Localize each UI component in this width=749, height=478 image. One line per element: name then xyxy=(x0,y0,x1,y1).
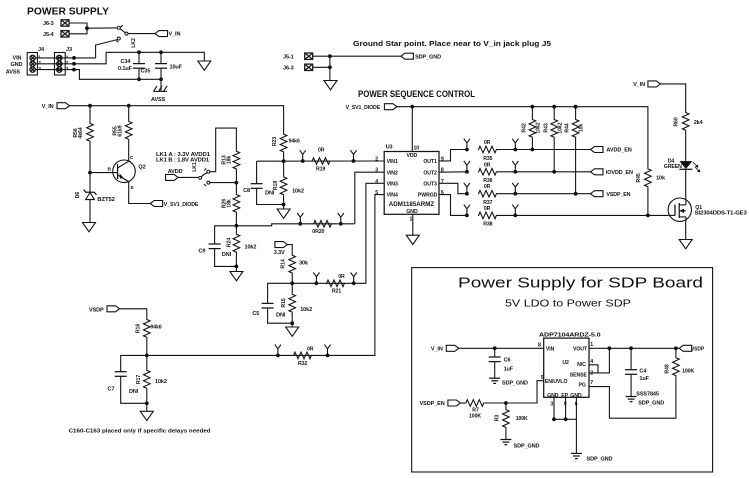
test point R38 right xyxy=(512,205,518,216)
junction col3 xyxy=(574,192,578,196)
wire to R7 xyxy=(460,402,465,404)
resistor R3 100K xyxy=(495,403,529,440)
junction VDD drop xyxy=(410,105,414,109)
wire Q1 source xyxy=(685,221,687,239)
svg-text:VIN3: VIN3 xyxy=(387,181,398,187)
svg-text:C7: C7 xyxy=(108,387,115,393)
wire PWRGD xyxy=(439,195,467,216)
svg-text:5V LDO to Power SDP: 5V LDO to Power SDP xyxy=(505,299,631,310)
ground xyxy=(140,403,153,420)
svg-text:SI2304DDS-T1-GE3: SI2304DDS-T1-GE3 xyxy=(695,211,747,217)
test point R21 left xyxy=(313,273,319,284)
junction VSDP divider xyxy=(145,354,149,358)
svg-text:VSDP_EN: VSDP_EN xyxy=(420,401,445,407)
svg-text:10k2: 10k2 xyxy=(557,122,563,133)
wire IOVDD_EN row xyxy=(497,171,591,173)
wire to AVSS ground xyxy=(160,79,162,91)
flag VSDP xyxy=(89,306,120,314)
junction R48 top xyxy=(674,346,678,350)
wire row3 AVSS xyxy=(35,70,138,80)
svg-text:IOVDD_EN: IOVDD_EN xyxy=(606,170,633,176)
svg-text:GREEN: GREEN xyxy=(664,164,682,170)
svg-text:VIN: VIN xyxy=(13,56,22,62)
test point R20 left xyxy=(297,213,303,224)
wire base xyxy=(90,172,118,174)
junction R18 bottom xyxy=(282,203,286,207)
wire VOUT row xyxy=(589,347,679,349)
ground xyxy=(679,240,692,249)
svg-text:100K: 100K xyxy=(469,414,481,420)
flag IOVDD_EN xyxy=(591,169,634,176)
IC U2 ADP7104ARDZ-5.0 regulator xyxy=(538,338,593,407)
svg-text:DNI: DNI xyxy=(276,313,286,319)
svg-text:DNI: DNI xyxy=(129,389,139,395)
test point R19 left xyxy=(300,150,306,161)
junction xyxy=(465,214,469,218)
svg-text:VSDP: VSDP xyxy=(89,307,104,313)
svg-text:0R: 0R xyxy=(484,140,491,146)
svg-text:U3: U3 xyxy=(386,145,393,151)
svg-text:SDP_GND: SDP_GND xyxy=(587,457,613,463)
wire V_IN to R60 xyxy=(660,84,685,112)
svg-text:LK1: LK1 xyxy=(192,162,198,172)
svg-text:18k: 18k xyxy=(227,199,233,208)
resistor R26 18k xyxy=(222,183,240,226)
svg-text:10k: 10k xyxy=(656,176,666,182)
junction col2 xyxy=(552,170,556,174)
resistor R55 61k9 xyxy=(113,106,133,161)
svg-text:R45: R45 xyxy=(636,173,642,182)
svg-text:LK1 B : 1.8V AVDD1: LK1 B : 1.8V AVDD1 xyxy=(156,157,209,163)
wire VIN2 net xyxy=(355,172,384,224)
svg-text:R35: R35 xyxy=(483,156,492,162)
connector J6-3b xyxy=(283,64,313,71)
svg-text:C4: C4 xyxy=(639,368,647,374)
svg-text:C160-C163 placed only if speci: C160-C163 placed only if specific delays… xyxy=(69,429,211,435)
svg-text:0R: 0R xyxy=(318,147,325,153)
wire junction to LK2 xyxy=(87,27,118,29)
junction xyxy=(298,222,302,226)
svg-text:R60: R60 xyxy=(674,117,680,126)
svg-text:SENSE: SENSE xyxy=(570,372,588,378)
wire R20 row xyxy=(236,224,354,226)
resistor R45 10k xyxy=(636,168,666,215)
svg-text:PG: PG xyxy=(579,383,586,389)
svg-text:8: 8 xyxy=(441,168,444,174)
flag V_IN top right xyxy=(633,81,660,88)
svg-text:10k: 10k xyxy=(579,124,585,133)
junction xyxy=(513,214,517,218)
wire gnd drop xyxy=(575,419,577,453)
svg-text:2k4: 2k4 xyxy=(694,120,704,126)
svg-text:V_IN: V_IN xyxy=(42,104,54,110)
top cap rail xyxy=(139,52,205,61)
svg-text:1uF: 1uF xyxy=(639,376,649,382)
svg-text:0R: 0R xyxy=(338,274,345,280)
junction xyxy=(465,148,469,152)
wire star point xyxy=(313,55,401,57)
wire R21 row xyxy=(292,183,384,283)
resistor R17 10k2 xyxy=(136,355,167,403)
wire LED to Q1 xyxy=(685,169,687,198)
resistor R36 0R xyxy=(478,162,497,184)
junction col1 xyxy=(531,148,535,152)
junction AVSS drop xyxy=(159,77,163,81)
junction xyxy=(513,170,517,174)
ground xyxy=(83,223,96,232)
resistor R37 0R xyxy=(478,184,497,206)
wire PWRGD row to Q1 gate xyxy=(497,214,668,216)
svg-text:7: 7 xyxy=(441,179,444,185)
test point R20 right xyxy=(338,213,344,224)
test point R36 right xyxy=(512,161,518,172)
junction C34 bottom xyxy=(137,77,141,81)
svg-text:VSDP_EN: VSDP_EN xyxy=(606,192,630,198)
junction node R14 xyxy=(290,281,294,285)
junction node1 xyxy=(235,181,239,185)
svg-text:EP: EP xyxy=(561,393,568,399)
svg-text:7: 7 xyxy=(590,380,593,386)
svg-text:3: 3 xyxy=(375,168,378,174)
svg-text:2: 2 xyxy=(38,60,41,66)
svg-text:R44: R44 xyxy=(565,123,571,132)
junction xyxy=(352,159,356,163)
ground xyxy=(406,235,419,244)
junction R45 bottom xyxy=(646,214,650,218)
capacitor C5 DNI xyxy=(252,283,292,323)
resistor R24 10k2 xyxy=(227,226,257,267)
svg-text:DNI: DNI xyxy=(222,252,232,258)
test point R32 right xyxy=(324,345,330,356)
resistor R42 10k2 xyxy=(522,107,542,150)
svg-text:OUT3: OUT3 xyxy=(423,181,437,187)
capacitor C4 1uF xyxy=(625,348,650,396)
svg-text:100K: 100K xyxy=(516,416,528,422)
svg-text:R17: R17 xyxy=(136,375,142,384)
junction R17 bottom xyxy=(145,401,149,405)
flag VSDP_EN xyxy=(591,191,631,198)
svg-text:3: 3 xyxy=(550,401,553,407)
wire VIN SDP xyxy=(459,347,544,349)
svg-text:61k9: 61k9 xyxy=(118,125,124,136)
wire sequencer rail xyxy=(397,107,648,169)
svg-text:C6: C6 xyxy=(504,358,511,364)
svg-text:J3: J3 xyxy=(66,47,72,53)
svg-text:5: 5 xyxy=(541,375,544,381)
svg-text:D6: D6 xyxy=(75,192,81,199)
test point R35 right xyxy=(512,139,518,150)
capacitor C9 DNI xyxy=(199,226,237,267)
resistor R32 0R xyxy=(293,347,314,367)
capacitor C34 0.1uF xyxy=(118,52,145,79)
svg-text:VIN: VIN xyxy=(546,347,555,353)
svg-text:0.1uF: 0.1uF xyxy=(118,66,133,72)
svg-text:1: 1 xyxy=(590,342,593,348)
wire OUT1 xyxy=(439,150,467,161)
resistor R48 100K xyxy=(665,348,695,381)
svg-text:30k: 30k xyxy=(299,261,309,267)
capacitor C35 10uF xyxy=(141,52,183,79)
flag V_IN left rail xyxy=(42,103,70,110)
svg-text:10uF: 10uF xyxy=(170,64,183,70)
capacitor C7 DNI xyxy=(108,355,147,403)
wire bottom rail xyxy=(147,195,384,356)
svg-text:VSDP: VSDP xyxy=(691,347,704,353)
svg-text:V_SV1_DIODE: V_SV1_DIODE xyxy=(164,202,199,208)
svg-text:DNI: DNI xyxy=(265,191,275,197)
svg-text:C5: C5 xyxy=(252,311,259,317)
junction xyxy=(301,159,305,163)
junction xyxy=(352,281,356,285)
svg-text:VIN4: VIN4 xyxy=(387,193,398,199)
svg-text:0R: 0R xyxy=(307,347,314,353)
junction xyxy=(328,65,332,69)
junction sense xyxy=(608,346,612,350)
chassis ground AVSS xyxy=(151,86,167,103)
svg-text:R18: R18 xyxy=(273,181,279,190)
junction xyxy=(513,192,517,196)
svg-text:SSS7845: SSS7845 xyxy=(636,392,659,398)
IC U3 ADM1185ARMZ xyxy=(375,145,444,223)
wire AVDD to LK1 xyxy=(178,176,199,178)
junction node2 xyxy=(235,224,239,228)
flag 3.3V xyxy=(274,242,288,256)
svg-text:OUT2: OUT2 xyxy=(423,170,437,176)
flag VSDP out xyxy=(679,345,704,352)
svg-text:0R: 0R xyxy=(484,184,491,190)
flag V_IN SDP xyxy=(431,345,459,352)
test point OUT2 left xyxy=(464,161,470,172)
resistor R19 0R xyxy=(312,147,331,172)
resistor R7 100K xyxy=(465,400,506,420)
svg-text:6: 6 xyxy=(441,190,444,196)
svg-text:Ground Star point. Place near: Ground Star point. Place near to V_in ja… xyxy=(353,39,551,48)
svg-text:SDP_GND: SDP_GND xyxy=(502,381,528,387)
resistor R38 0R xyxy=(478,206,497,228)
junction rail col1 xyxy=(531,105,535,109)
svg-text:0R20: 0R20 xyxy=(312,229,324,235)
svg-text:R48: R48 xyxy=(665,364,671,373)
test point OUT3 left xyxy=(464,183,470,194)
svg-text:C35: C35 xyxy=(141,68,151,74)
svg-text:GND: GND xyxy=(406,209,418,215)
ground xyxy=(324,81,337,90)
resistor R13 18k xyxy=(222,151,240,183)
svg-text:10k2: 10k2 xyxy=(292,189,304,195)
wire V_IN rail xyxy=(70,106,284,134)
junction row3 xyxy=(72,68,76,72)
svg-text:100K: 100K xyxy=(682,369,694,375)
junction xyxy=(465,192,469,196)
svg-text:4: 4 xyxy=(375,179,378,185)
junction row2 xyxy=(72,62,76,66)
junction xyxy=(465,170,469,174)
junction rail col2 xyxy=(552,105,556,109)
svg-text:C8: C8 xyxy=(243,188,250,194)
svg-text:0R: 0R xyxy=(484,206,491,212)
svg-text:VDD: VDD xyxy=(407,153,418,159)
resistor R16 94k6 xyxy=(136,319,162,356)
junction xyxy=(328,54,332,58)
wire LK1 A to chain top xyxy=(209,128,236,172)
diode D6 BZT52 zener xyxy=(75,173,115,222)
junction xyxy=(276,354,280,358)
svg-text:EN/UVLO: EN/UVLO xyxy=(545,379,567,385)
wire EN to U2 xyxy=(506,381,544,403)
wire row1 VIN xyxy=(35,57,95,59)
svg-text:18k: 18k xyxy=(227,156,233,165)
resistor R56 4k64 xyxy=(73,106,93,173)
svg-text:J6-3: J6-3 xyxy=(43,21,54,27)
junction C4 top xyxy=(629,346,633,350)
svg-text:V_IN: V_IN xyxy=(169,32,181,38)
wire SENSE to VOUT xyxy=(589,348,609,373)
svg-text:R21: R21 xyxy=(332,289,341,295)
svg-text:J5-4: J5-4 xyxy=(43,32,55,38)
svg-text:OUT1: OUT1 xyxy=(423,159,437,165)
svg-text:Q2: Q2 xyxy=(138,165,145,171)
wire emitter to flag xyxy=(129,182,151,204)
svg-text:3: 3 xyxy=(66,66,69,72)
svg-text:R43: R43 xyxy=(543,123,549,132)
svg-text:Power Supply for SDP Board: Power Supply for SDP Board xyxy=(458,276,703,292)
junction R55 top xyxy=(127,104,131,108)
wire AVDD_EN row xyxy=(497,149,591,151)
resistor R60 2k4 xyxy=(674,112,704,161)
svg-text:10: 10 xyxy=(414,145,420,151)
connector J3 xyxy=(55,47,72,75)
svg-text:R15: R15 xyxy=(281,298,287,307)
connector J4 xyxy=(27,47,45,75)
wire LK1 B to node1 xyxy=(209,182,236,184)
svg-text:J6-3: J6-3 xyxy=(283,66,294,72)
resistor R18 10k2 xyxy=(273,161,304,204)
wire star drop xyxy=(329,56,331,80)
junction base xyxy=(88,171,92,175)
svg-text:2: 2 xyxy=(375,156,378,162)
ground xyxy=(198,61,211,70)
wire EP pin xyxy=(565,397,567,419)
junction R23 bottom xyxy=(282,159,286,163)
junction R56 top xyxy=(88,104,92,108)
SDP ground under R3 xyxy=(500,440,539,450)
flag AVDD xyxy=(166,169,183,181)
link LK2 xyxy=(116,25,137,47)
flag VSDP_EN SDP xyxy=(420,400,461,407)
connector J5-4 xyxy=(43,31,69,38)
svg-text:2: 2 xyxy=(66,60,69,66)
svg-text:C34: C34 xyxy=(121,59,132,65)
svg-text:GND: GND xyxy=(11,62,23,68)
svg-text:LK2: LK2 xyxy=(131,38,137,48)
junction node3 xyxy=(235,265,239,269)
svg-text:POWER SEQUENCE CONTROL: POWER SEQUENCE CONTROL xyxy=(358,89,475,99)
link LK1 xyxy=(192,162,210,186)
junction rail col3 xyxy=(574,105,578,109)
capacitor C8 DNI xyxy=(243,161,284,204)
junction xyxy=(315,281,319,285)
svg-text:R24: R24 xyxy=(227,238,233,247)
junction xyxy=(326,354,330,358)
svg-text:R32: R32 xyxy=(298,361,307,367)
junction C34 top xyxy=(137,50,141,54)
ground xyxy=(277,205,290,219)
wire U3 gnd xyxy=(412,214,414,235)
junction gnd1 xyxy=(552,417,556,421)
resistor R35 0R xyxy=(478,140,497,162)
wire row2 GND xyxy=(35,52,138,64)
svg-text:1: 1 xyxy=(410,217,413,223)
flag V_SV1_DIODE xyxy=(150,201,198,208)
svg-text:5: 5 xyxy=(375,190,378,196)
junction R15 bottom xyxy=(290,321,294,325)
svg-text:POWER SUPPLY: POWER SUPPLY xyxy=(27,6,109,18)
svg-text:R14: R14 xyxy=(281,259,287,268)
svg-text:VIN1: VIN1 xyxy=(387,159,398,165)
junction xyxy=(339,222,343,226)
svg-text:J5-1: J5-1 xyxy=(283,54,294,60)
resistor R20 0R xyxy=(312,221,332,236)
wire LK2 bottom throw down to J3 row1 xyxy=(96,40,118,58)
svg-text:AVSS: AVSS xyxy=(6,70,21,76)
wire VSDP to R16 xyxy=(120,309,147,319)
junction xyxy=(513,148,517,152)
svg-text:0R: 0R xyxy=(484,162,491,168)
svg-text:V_IN: V_IN xyxy=(431,347,443,353)
svg-text:SDP_GND: SDP_GND xyxy=(638,401,664,407)
wire N/C stub xyxy=(589,365,598,373)
test point OUT1 left xyxy=(464,139,470,150)
connector J5-1 xyxy=(283,53,313,60)
resistor R21 0R xyxy=(326,274,345,295)
test point PWRGD left xyxy=(464,205,470,216)
resistor R14 30k xyxy=(281,255,310,284)
wire U2 gnd pins xyxy=(554,397,576,419)
wire J6-3b xyxy=(313,66,330,68)
wire VDD xyxy=(411,107,413,152)
svg-text:SDP_GND: SDP_GND xyxy=(514,444,540,450)
svg-text:3: 3 xyxy=(38,66,41,72)
wire J6-3 to junction xyxy=(69,23,87,34)
transistor Q1 MOSFET xyxy=(668,198,747,222)
flag V_SV1_DIODE sequencer xyxy=(346,104,397,111)
flag SDP_GND xyxy=(401,53,441,60)
junction 10uF top xyxy=(159,50,163,54)
ground xyxy=(286,323,299,336)
bottom cap rail xyxy=(139,78,162,80)
LED D4 GREEN xyxy=(664,159,701,173)
SDP board box xyxy=(412,268,713,472)
wire PG loop xyxy=(589,381,676,418)
SDP ground under C6 xyxy=(489,378,528,387)
svg-text:VOUT: VOUT xyxy=(573,347,588,353)
wire divider row xyxy=(257,160,385,162)
svg-text:R19: R19 xyxy=(316,166,325,172)
svg-text:V_SV1_DIODE: V_SV1_DIODE xyxy=(346,105,381,111)
wire OUT3 xyxy=(439,183,467,193)
svg-text:PWRGD: PWRGD xyxy=(418,193,438,199)
svg-text:V_IN: V_IN xyxy=(633,82,645,88)
connector J6-3 xyxy=(43,20,69,27)
svg-text:R42: R42 xyxy=(522,123,528,132)
svg-text:ADM1185ARMZ: ADM1185ARMZ xyxy=(389,201,435,208)
svg-text:10k2: 10k2 xyxy=(300,307,312,313)
svg-text:J4: J4 xyxy=(38,47,45,53)
capacitor C6 1uF xyxy=(489,348,514,378)
test point R37 right xyxy=(512,183,518,194)
SDP ground under U2 xyxy=(571,453,613,462)
svg-text:1uF: 1uF xyxy=(504,366,514,372)
